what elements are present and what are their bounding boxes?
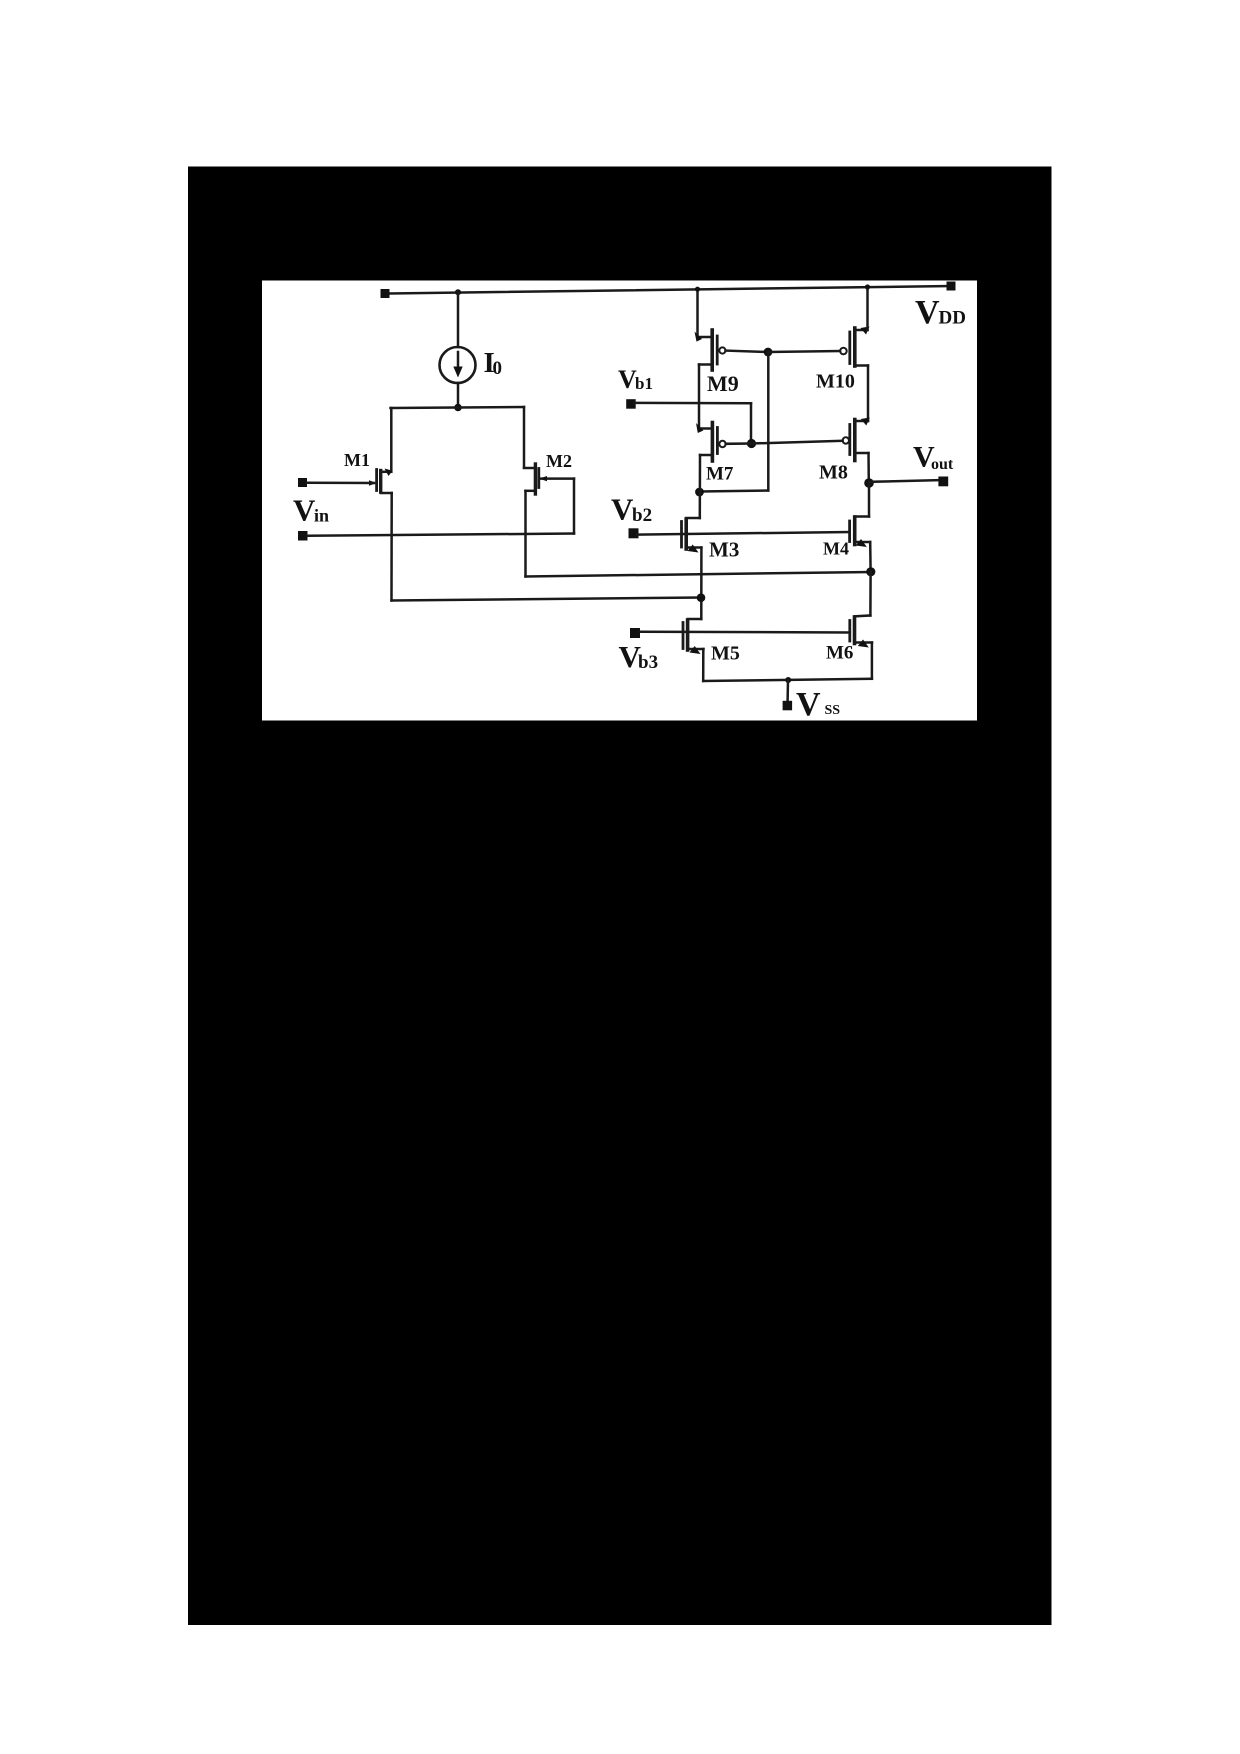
node rail-I0 junction <box>455 289 461 295</box>
terminal Vb2 square <box>629 528 639 538</box>
wire M9 mirror-gate down link <box>767 352 770 491</box>
label M9 <box>707 371 739 396</box>
wire Vin- to M2 gate loop <box>308 534 575 536</box>
svg-text:b2: b2 <box>632 505 652 526</box>
transistor M7 <box>696 423 726 462</box>
current source I0 <box>440 347 476 383</box>
wire Vin+ to M1 gate <box>307 481 374 484</box>
svg-text:out: out <box>931 456 954 473</box>
wire Vb2 to M3 and M4 gates <box>637 532 849 535</box>
terminal VDD right square <box>947 282 956 291</box>
wire M3 source down through node A <box>700 548 703 620</box>
wire M4 source to node B <box>869 542 872 572</box>
wire rail to current source <box>457 292 460 347</box>
node rail-M9 junction <box>695 287 700 292</box>
svg-text:V: V <box>611 492 634 527</box>
wire M6 source down <box>871 643 874 679</box>
svg-text:in: in <box>314 506 329 526</box>
paper panel <box>262 281 977 721</box>
wire Vb3 to M5 and M6 gates <box>640 630 850 633</box>
svg-text:V: V <box>915 294 940 331</box>
wire current source to tail node <box>457 383 460 408</box>
terminal VDD left square <box>381 289 390 298</box>
label I0 <box>484 347 503 379</box>
wire M2 source vertical <box>523 407 526 468</box>
svg-text:b3: b3 <box>638 652 658 673</box>
svg-text:V: V <box>796 686 821 723</box>
wire link to M7 drain <box>700 491 768 492</box>
svg-text:M8: M8 <box>819 462 848 484</box>
wire VDD rail <box>390 286 952 294</box>
node rail-M10 junction <box>865 284 870 289</box>
wire tail rail <box>391 407 525 408</box>
wire M7 drain down to M3 <box>699 455 702 518</box>
label M8 <box>819 462 848 484</box>
wire M10 source to rail <box>866 287 869 330</box>
node M7 drain junction <box>695 488 704 497</box>
label M2 <box>546 451 572 471</box>
svg-text:SS: SS <box>825 703 841 718</box>
transistor M1 <box>369 469 393 494</box>
transistor M10 <box>840 327 869 367</box>
node tail junction <box>454 404 462 412</box>
svg-text:0: 0 <box>493 358 503 379</box>
transistor M6 <box>850 616 872 648</box>
terminal Vb3 square <box>630 628 640 638</box>
node VSS junction <box>785 677 791 683</box>
terminal Vin- square <box>298 531 308 541</box>
node mirror gate junction <box>764 348 773 357</box>
svg-text:DD: DD <box>939 308 966 329</box>
node M7 gate junction <box>747 439 756 448</box>
label M4 <box>823 539 849 559</box>
wire M9 drain to M7 source <box>698 365 701 428</box>
label Vb3 <box>619 639 659 674</box>
wire VSS bottom rail <box>703 679 872 681</box>
wire M10 drain to M8 source <box>867 366 870 422</box>
label M7 <box>706 464 734 485</box>
label M10 <box>816 371 855 393</box>
svg-text:V: V <box>293 493 316 528</box>
wire M1 source vertical <box>390 408 393 472</box>
label Vout <box>913 441 954 474</box>
wire M1 drain down <box>390 493 393 601</box>
wire rail to M9 source <box>696 289 699 335</box>
label M5 <box>711 643 740 665</box>
svg-text:M2: M2 <box>546 451 572 471</box>
transistor M5 <box>683 619 704 654</box>
svg-text:M9: M9 <box>707 371 739 396</box>
terminal Vin+ square <box>298 478 307 487</box>
wire Vb1 to cascode gates <box>635 402 751 405</box>
label M1 <box>344 450 370 470</box>
svg-text:M7: M7 <box>706 464 734 485</box>
wire node B down to M6 drain <box>869 572 872 616</box>
wire M5 source down <box>702 649 705 681</box>
transistor M4 <box>850 517 871 548</box>
terminal VSS square <box>783 701 793 711</box>
svg-text:M5: M5 <box>711 643 740 665</box>
wire mirror node to M10 gate <box>768 351 840 352</box>
label M6 <box>826 643 853 664</box>
wire Vout node to M4 drain <box>868 483 871 517</box>
svg-text:M4: M4 <box>823 539 849 559</box>
wire Vout <box>869 480 938 482</box>
svg-text:M3: M3 <box>709 538 739 562</box>
node Vout junction <box>864 478 874 488</box>
label Vin <box>293 493 329 528</box>
svg-text:M10: M10 <box>816 371 855 393</box>
wire M2 drain down <box>524 491 527 577</box>
terminal Vb1 square <box>626 399 636 409</box>
label M3 <box>709 538 739 562</box>
wire M2 gate loop vertical <box>573 479 576 534</box>
black figure background block <box>188 167 1052 1626</box>
transistor M9 <box>695 330 726 370</box>
transistor M2 <box>524 464 574 494</box>
terminal Vout square <box>938 477 948 487</box>
wire Vb1 drop to M7 gate node <box>750 403 753 440</box>
svg-text:M1: M1 <box>344 450 370 470</box>
transistor M3 <box>682 518 702 553</box>
wire M9 gate to mirror node <box>726 351 769 352</box>
wire M8 drain down to Vout node <box>867 453 870 483</box>
wire M2 drain to node B <box>526 572 872 577</box>
label Vb2 <box>611 492 652 527</box>
node A junction <box>697 593 706 602</box>
wire M1 drain to node A <box>392 598 702 601</box>
wire M7 gate to M8 gate <box>726 441 843 444</box>
label Vb1 <box>618 365 653 394</box>
label VSS <box>796 686 840 723</box>
svg-text:M6: M6 <box>826 643 853 664</box>
label VDD <box>915 294 966 331</box>
wire VSS stem <box>786 680 789 701</box>
transistor M8 <box>843 418 870 461</box>
svg-text:b1: b1 <box>635 374 653 393</box>
node B junction <box>866 567 875 576</box>
